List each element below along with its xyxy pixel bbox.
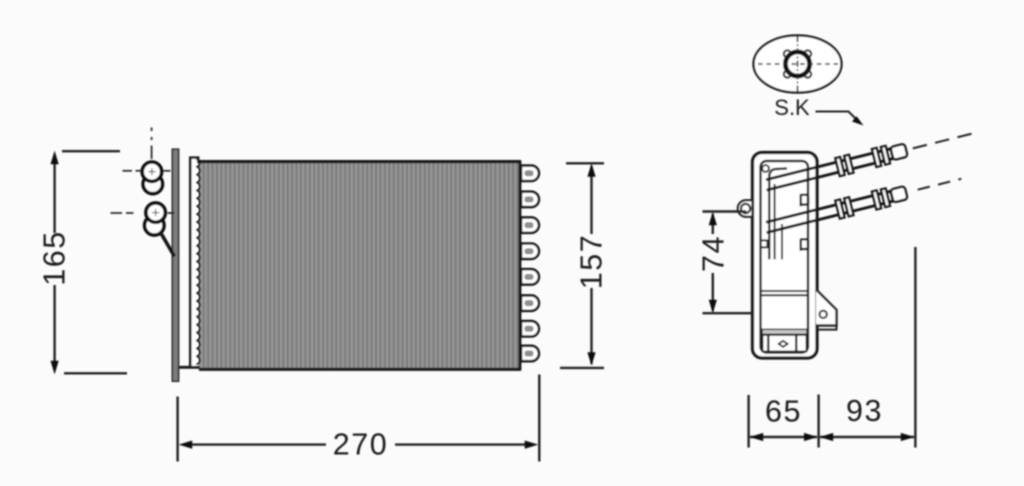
- inlet/outlet ports pair 2: [145, 216, 164, 235]
- dimension 157 line: [590, 166, 592, 234]
- dimension 165 ticks: [62, 150, 120, 152]
- left mounting tab: [738, 200, 753, 216]
- core bottom border: [199, 368, 521, 371]
- port pair 2 axis dashes: [111, 212, 123, 214]
- bottom box diamond hole: [779, 341, 788, 347]
- lower internal section line (double): [762, 290, 808, 292]
- left tab hole: [741, 204, 750, 213]
- inlet/outlet ports pair 1 (top): [143, 174, 162, 193]
- side view body outer shell: [753, 153, 818, 359]
- flange horizontal dashed centerline: [758, 63, 838, 65]
- lower pipe: [763, 170, 963, 237]
- dimension 270 arrows: [179, 441, 193, 449]
- pipe clamp upper: [801, 194, 808, 206]
- port bracket hook: [160, 232, 175, 257]
- svg-text:S.K: S.K: [774, 95, 810, 120]
- right mounting bracket: [816, 290, 837, 326]
- svg-text:165: 165: [38, 230, 72, 285]
- scalloped edge of gasket strip: [196, 159, 200, 364]
- port pair 2 center mark: [152, 212, 159, 214]
- bottom box row: [763, 335, 807, 352]
- dimension 270 extension lines: [176, 397, 178, 462]
- core right end plate edge: [519, 161, 522, 371]
- bottom box dividers: [767, 335, 769, 352]
- bracket hole: [820, 311, 827, 318]
- dimension 165 line: [53, 160, 55, 233]
- dimension 93 line: [820, 436, 914, 438]
- body top-left screw: [762, 165, 769, 172]
- dimension 65/93 ticks: [747, 395, 749, 448]
- left gasket strip (scalloped): [191, 158, 197, 367]
- flange vertical dash-dot centerline: [797, 36, 799, 93]
- dimension 165 arrows: [51, 151, 59, 165]
- port pair 1 axis dashes: [123, 170, 133, 172]
- S.K flange section: outer ellipse: [754, 35, 842, 92]
- side view body inner wall: [761, 161, 809, 353]
- core front view: hatched matrix: [199, 161, 521, 370]
- bracket bottom flange: [816, 326, 837, 330]
- vertical centerline above port pair 1: [151, 128, 153, 132]
- dimension 65 line: [750, 436, 817, 438]
- bottom gray band: [762, 329, 807, 334]
- dimension 74 ticks: [703, 210, 747, 212]
- svg-text:270: 270: [333, 428, 388, 462]
- dimension 270 line: [190, 443, 326, 445]
- S.K leader line: [816, 112, 858, 121]
- core top border: [190, 160, 521, 163]
- internal tube verticals: [768, 174, 770, 259]
- internal tube elbow: [769, 168, 787, 176]
- port pair 1 center mark: [148, 171, 155, 173]
- right header tube loops (8): [521, 166, 539, 362]
- S.K leader arrowhead: [852, 116, 864, 125]
- dimension 74 arrows: [709, 212, 717, 226]
- svg-text:74: 74: [697, 235, 731, 272]
- wall clip: [761, 240, 768, 247]
- upper pipe: [763, 124, 978, 194]
- pipe clamp lower: [801, 239, 808, 251]
- dimension 157 arrows: [587, 163, 595, 177]
- svg-text:65: 65: [765, 395, 802, 429]
- dimension 157 ticks: [566, 162, 604, 164]
- flange lug arcs: [784, 50, 791, 57]
- left side plate bar: [172, 149, 178, 381]
- svg-text:93: 93: [846, 394, 883, 428]
- right long extension line: [914, 247, 916, 448]
- svg-text:157: 157: [575, 234, 609, 289]
- dimension 74 line: [712, 214, 714, 234]
- tube loop inner tubes: [525, 170, 534, 356]
- flange pipe bore ring: [785, 52, 809, 76]
